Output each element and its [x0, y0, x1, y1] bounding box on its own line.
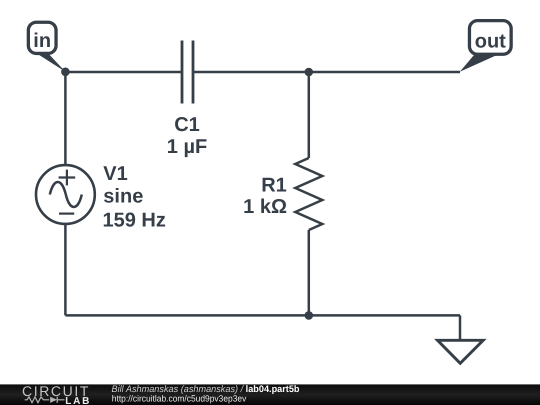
node top junction dot (C1/R1/out)	[305, 68, 314, 77]
voltage source V1 plus sign	[59, 170, 76, 186]
svg-text:159 Hz: 159 Hz	[103, 209, 166, 231]
node bottom junction dot (R1/ground rail)	[305, 311, 314, 320]
svg-text:in: in	[33, 30, 51, 52]
svg-text:sine: sine	[103, 186, 143, 208]
svg-text:R1: R1	[261, 175, 287, 197]
node flag out tail	[460, 55, 497, 72]
footer logo resistor zigzag	[25, 397, 50, 403]
voltage source V1 circle	[36, 165, 95, 224]
svg-text:out: out	[475, 31, 506, 53]
footer logo diode bar and lead	[57, 397, 64, 403]
wire R1 top lead	[308, 72, 311, 158]
footer logo diode	[50, 397, 57, 403]
svg-text:1 kΩ: 1 kΩ	[243, 196, 287, 218]
capacitor C1 left plate	[181, 41, 184, 104]
voltage source V1 minus sign	[59, 213, 74, 215]
wire top-right (C1 right plate to out flag)	[193, 71, 460, 74]
node flag in tail	[38, 54, 65, 72]
node in junction dot	[61, 68, 70, 77]
capacitor C1 right plate	[192, 41, 195, 104]
wire bottom rail	[65, 314, 460, 317]
ground symbol triangle	[438, 340, 484, 363]
resistor R1 zigzag	[295, 158, 322, 230]
wire top-left (node in to C1 left plate)	[65, 71, 182, 74]
voltage source V1 sine wave	[50, 182, 82, 207]
svg-text:1 µF: 1 µF	[167, 136, 207, 158]
svg-text:http://circuitlab.com/c5ud9pv3: http://circuitlab.com/c5ud9pv3ep3ev	[112, 394, 247, 404]
svg-text:C1: C1	[174, 114, 200, 136]
node flag in bubble	[28, 22, 56, 53]
wire R1 bottom lead	[308, 230, 311, 315]
wire left lower (V1 bottom to bottom rail)	[64, 224, 67, 316]
wire left upper (node in to V1 top)	[64, 72, 67, 165]
footer black bar	[0, 384, 540, 405]
node flag out bubble	[469, 21, 511, 55]
svg-text:LAB: LAB	[65, 396, 91, 405]
svg-text:V1: V1	[103, 163, 127, 185]
wire ground drop	[459, 315, 462, 340]
